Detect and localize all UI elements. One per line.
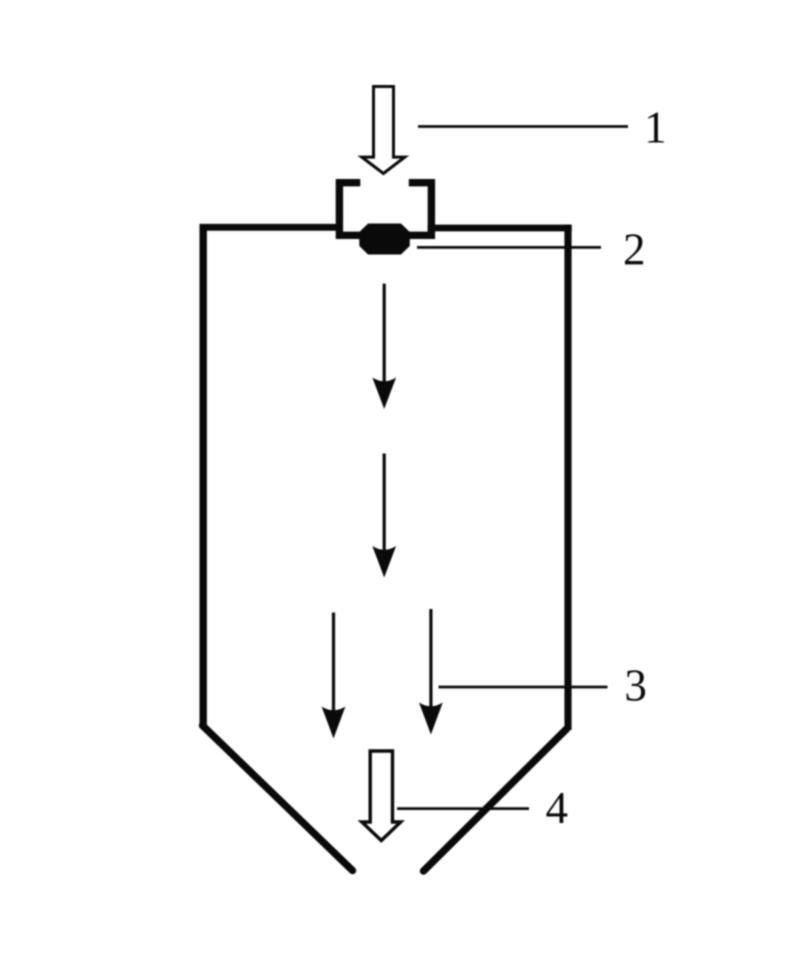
falling flow arrow upper xyxy=(372,284,396,409)
falling flow arrow lower-left xyxy=(322,613,346,739)
label 2 xyxy=(623,225,646,275)
vessel top wall right segment xyxy=(428,225,572,232)
svg-text:1: 1 xyxy=(644,103,667,153)
leader line 2 xyxy=(417,246,601,249)
hopper right slope xyxy=(424,729,567,871)
label 3 xyxy=(624,661,647,711)
label 1 xyxy=(644,103,667,153)
vessel left wall xyxy=(199,224,206,728)
vessel top wall left segment xyxy=(200,224,344,231)
hollow discharge arrow (4) xyxy=(362,751,401,841)
falling flow arrow lower-right xyxy=(419,609,443,735)
inlet port right bracket xyxy=(409,183,432,236)
label 4 xyxy=(546,783,569,833)
svg-text:3: 3 xyxy=(624,661,647,711)
inlet port left bracket xyxy=(339,183,360,236)
leader line 4 xyxy=(397,807,529,810)
svg-text:4: 4 xyxy=(546,783,569,833)
hopper left slope xyxy=(203,726,353,871)
leader line 1 xyxy=(418,125,628,128)
vessel right wall xyxy=(564,225,571,730)
leader line 3 xyxy=(439,686,608,689)
rotary feeder valve (2) xyxy=(360,225,409,254)
svg-text:2: 2 xyxy=(623,225,646,275)
hollow inlet arrow (feed stream) xyxy=(362,87,405,174)
falling flow arrow middle xyxy=(372,454,396,578)
